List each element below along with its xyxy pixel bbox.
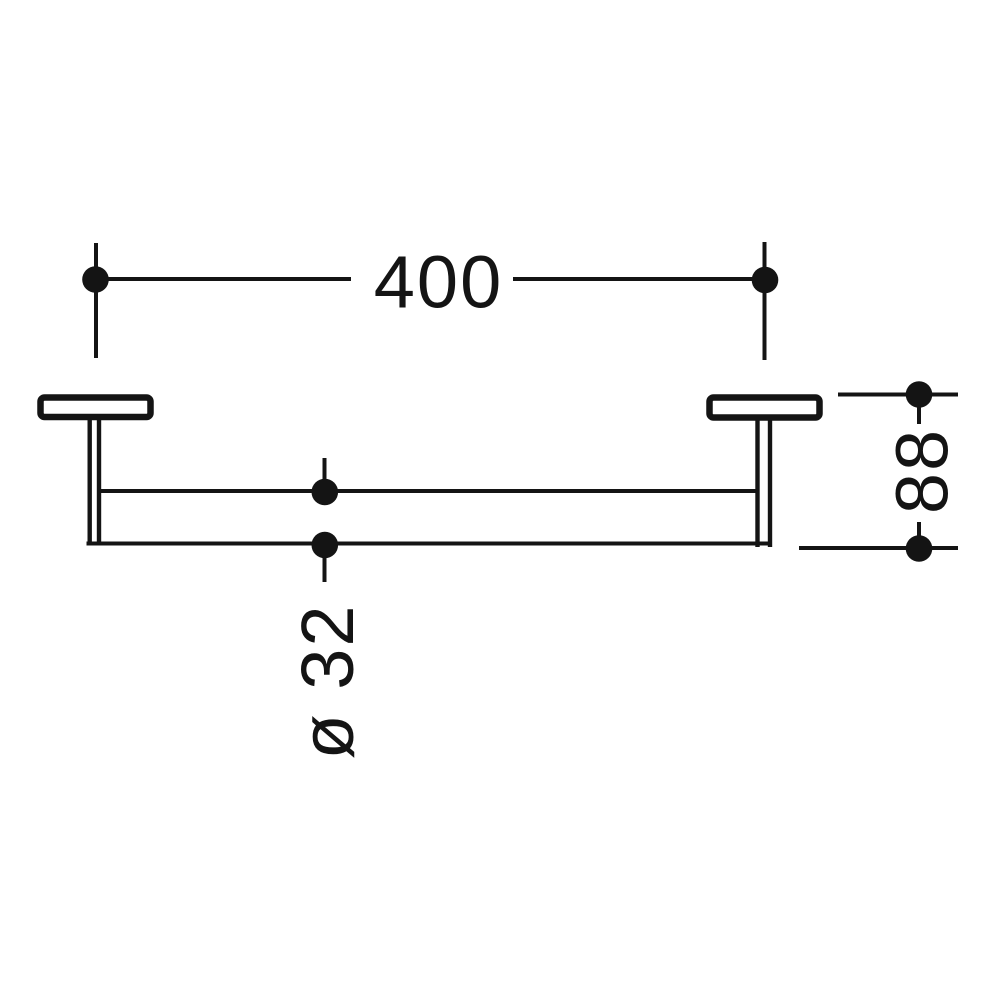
dim 32 tick below bottom dot	[323, 556, 327, 582]
bar top line	[99, 489, 758, 493]
dim 88 bottom line	[799, 546, 958, 550]
svg-text:88: 88	[881, 428, 964, 514]
dim 400 extension line left	[94, 243, 98, 358]
dim 32 tick above top dot	[323, 458, 327, 482]
dim 400 right dot	[752, 267, 779, 294]
dim 400 line left segment	[98, 277, 351, 281]
dim 88 top line	[838, 393, 958, 397]
bar bottom line	[87, 542, 772, 546]
left wall plate	[41, 398, 151, 418]
left post outer line	[87, 419, 91, 545]
svg-text:ø 32: ø 32	[286, 603, 369, 759]
left post inner line	[97, 419, 101, 545]
dim 400 left dot	[82, 266, 109, 293]
right post outer line	[768, 420, 772, 547]
dim 88 bottom dot	[906, 535, 933, 562]
dim 88 top dot	[906, 381, 933, 408]
dim 400 line right segment	[513, 277, 762, 281]
right post inner line	[755, 420, 759, 547]
dim 400 extension line right	[763, 242, 767, 360]
dim 32 bottom dot	[312, 532, 339, 559]
svg-text:400: 400	[374, 241, 503, 324]
dim 88 tick below top dot	[917, 406, 921, 424]
right wall plate	[710, 398, 820, 418]
dim 88 tick above bottom dot	[917, 522, 921, 538]
dim 32 top dot	[312, 479, 339, 506]
